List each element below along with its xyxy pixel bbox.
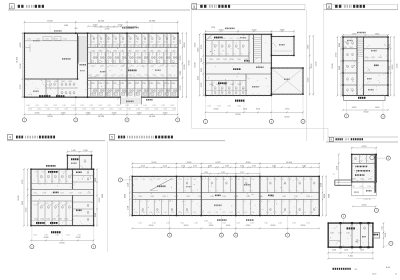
svg-text:1.365: 1.365 [106, 42, 110, 44]
svg-text:1.365: 1.365 [120, 50, 124, 52]
svg-text:4.550: 4.550 [187, 162, 192, 164]
svg-text:1.365: 1.365 [69, 193, 73, 195]
svg-text:1.365: 1.365 [150, 42, 154, 44]
svg-text:2.730: 2.730 [321, 183, 323, 187]
svg-text:1.365: 1.365 [134, 212, 138, 214]
svg-text:1.365: 1.365 [193, 179, 197, 181]
svg-text:1.365: 1.365 [35, 105, 39, 107]
svg-text:1.25 1.35: 1.25 1.35 [363, 199, 370, 201]
svg-text:6: 6 [328, 5, 330, 9]
svg-text:1.365: 1.365 [135, 42, 139, 44]
svg-text:1.365: 1.365 [119, 36, 123, 38]
svg-text:1.365: 1.365 [44, 105, 48, 107]
svg-text:1.365: 1.365 [222, 38, 226, 40]
svg-text:1.365: 1.365 [171, 83, 175, 85]
svg-text:1.365: 1.365 [266, 212, 270, 214]
svg-text:A-04: A-04 [386, 266, 390, 269]
svg-text:1.365: 1.365 [130, 66, 134, 68]
svg-text:1.365: 1.365 [170, 105, 174, 107]
svg-text:1.365: 1.365 [89, 105, 93, 107]
svg-text:1.365: 1.365 [198, 196, 202, 198]
svg-text:2.275: 2.275 [252, 166, 256, 168]
svg-text:1.365: 1.365 [109, 109, 113, 111]
svg-text:4.550: 4.550 [20, 42, 22, 48]
svg-text:1.365: 1.365 [60, 193, 64, 195]
svg-text:1.365: 1.365 [180, 222, 184, 224]
svg-text:1.365: 1.365 [258, 179, 262, 181]
svg-text:1.365: 1.365 [229, 212, 233, 214]
svg-text:5.460: 5.460 [272, 166, 276, 168]
svg-text:1.365: 1.365 [64, 219, 68, 221]
svg-text:4.100: 4.100 [141, 166, 145, 168]
svg-text:4.550: 4.550 [385, 233, 387, 237]
svg-text:2.730: 2.730 [201, 45, 203, 50]
svg-text:1.365: 1.365 [237, 59, 241, 61]
svg-text:1.365: 1.365 [143, 105, 147, 107]
svg-text:1.365: 1.365 [152, 105, 156, 107]
svg-text:1.365: 1.365 [246, 196, 250, 198]
svg-text:S-1: S-1 [355, 269, 358, 271]
svg-text:6.370: 6.370 [216, 162, 221, 164]
svg-text:1.365: 1.365 [215, 38, 219, 40]
svg-text:8.190: 8.190 [285, 117, 290, 119]
svg-text:1.365: 1.365 [100, 109, 104, 111]
svg-text:8.190: 8.190 [124, 194, 126, 198]
svg-text:2.730: 2.730 [105, 28, 110, 30]
svg-text:1.820: 1.820 [339, 66, 341, 70]
svg-text:1.365: 1.365 [26, 105, 30, 107]
svg-text:1.365: 1.365 [201, 68, 203, 72]
svg-text:1.365: 1.365 [116, 105, 120, 107]
svg-text:1.365: 1.365 [343, 47, 347, 49]
svg-text:1.365: 1.365 [138, 222, 142, 224]
svg-text:1.365: 1.365 [194, 222, 198, 224]
svg-text:1.365: 1.365 [46, 109, 50, 111]
svg-text:1.365: 1.365 [156, 212, 160, 214]
svg-text:2.275: 2.275 [240, 166, 244, 168]
svg-text:1.365: 1.365 [236, 212, 240, 214]
svg-text:4.100: 4.100 [163, 166, 167, 168]
svg-text:1.365: 1.365 [62, 172, 66, 174]
svg-text:1.365: 1.365 [134, 36, 138, 38]
svg-text:10.920: 10.920 [286, 162, 292, 164]
svg-text:1.365: 1.365 [44, 234, 48, 236]
svg-text:1.365: 1.365 [48, 204, 52, 206]
svg-text:1.365: 1.365 [53, 105, 57, 107]
svg-text:4.550: 4.550 [163, 112, 168, 114]
svg-text:1.365: 1.365 [120, 66, 124, 68]
svg-text:1.365: 1.365 [142, 179, 146, 181]
svg-text:9.100: 9.100 [328, 194, 330, 198]
svg-text:1.365: 1.365 [58, 219, 62, 221]
svg-text:1.365: 1.365 [280, 212, 284, 214]
svg-text:1.365: 1.365 [135, 83, 139, 85]
svg-text:1.365: 1.365 [90, 36, 94, 38]
svg-text:1.365: 1.365 [120, 83, 124, 85]
svg-text:4.550: 4.550 [93, 25, 98, 27]
svg-text:1.365: 1.365 [91, 50, 95, 52]
svg-text:1.365: 1.365 [135, 50, 139, 52]
svg-text:1.400: 1.400 [226, 225, 231, 227]
svg-text:1.820: 1.820 [71, 150, 75, 152]
svg-text:4.550: 4.550 [362, 146, 367, 148]
svg-text:1.365: 1.365 [222, 212, 226, 214]
svg-text:1.365: 1.365 [338, 233, 342, 235]
svg-text:1.365: 1.365 [54, 81, 58, 83]
svg-text:1.365: 1.365 [150, 196, 154, 198]
svg-text:1.365: 1.365 [128, 50, 132, 52]
svg-text:1.365: 1.365 [78, 193, 82, 195]
svg-text:2.730: 2.730 [128, 206, 130, 210]
svg-text:1.820: 1.820 [221, 172, 225, 174]
svg-text:1.365: 1.365 [200, 179, 204, 181]
svg-text:10.920: 10.920 [98, 116, 105, 118]
svg-text:2.1: 2.1 [333, 173, 335, 175]
svg-text:4: 4 [11, 5, 13, 9]
svg-text:2.730: 2.730 [352, 33, 357, 35]
svg-text:9.100: 9.100 [396, 64, 398, 69]
svg-text:1.365: 1.365 [73, 109, 77, 111]
svg-text:4.550: 4.550 [246, 225, 251, 227]
svg-text:1.365: 1.365 [33, 234, 37, 236]
svg-text:1.365: 1.365 [162, 196, 166, 198]
svg-text:1.365: 1.365 [113, 42, 117, 44]
svg-text:1.365: 1.365 [309, 179, 313, 181]
svg-text:1.820: 1.820 [83, 150, 87, 152]
svg-text:1.365: 1.365 [28, 109, 32, 111]
svg-text:1.365: 1.365 [62, 204, 66, 206]
svg-text:1.365: 1.365 [170, 36, 174, 38]
svg-text:2.275: 2.275 [181, 166, 185, 168]
svg-text:1.365: 1.365 [134, 179, 138, 181]
svg-text:1.365: 1.365 [215, 179, 219, 181]
svg-text:1.365: 1.365 [62, 105, 66, 107]
svg-text:1.365: 1.365 [172, 109, 176, 111]
svg-text:1.365: 1.365 [144, 75, 148, 77]
svg-text:8.190: 8.190 [59, 242, 65, 244]
svg-text:8.190: 8.190 [47, 116, 53, 118]
svg-text:1.365: 1.365 [236, 38, 240, 40]
svg-text:1.365: 1.365 [47, 81, 51, 83]
svg-text:1.365: 1.365 [172, 42, 176, 44]
svg-text:2.730: 2.730 [26, 208, 28, 213]
svg-text:8.190: 8.190 [301, 225, 306, 227]
svg-text:1.365: 1.365 [145, 109, 149, 111]
svg-text:1.365: 1.365 [34, 219, 38, 221]
svg-text:1.365: 1.365 [140, 66, 144, 68]
svg-text:1.365: 1.365 [160, 66, 164, 68]
svg-text:1.365: 1.365 [215, 212, 219, 214]
svg-text:1.365: 1.365 [264, 222, 268, 224]
svg-text:1.365: 1.365 [142, 212, 146, 214]
svg-text:1.365: 1.365 [306, 222, 310, 224]
svg-text:9.100: 9.100 [315, 62, 317, 67]
svg-text:1.365: 1.365 [99, 42, 103, 44]
svg-text:1.365: 1.365 [125, 105, 129, 107]
svg-text:1.365: 1.365 [229, 179, 233, 181]
svg-text:1.365: 1.365 [346, 233, 350, 235]
svg-text:1.365: 1.365 [198, 76, 200, 80]
svg-text:2.730: 2.730 [180, 86, 182, 91]
svg-text:1.365: 1.365 [178, 179, 182, 181]
svg-text:1.365: 1.365 [106, 50, 110, 52]
svg-text:1.365: 1.365 [171, 179, 175, 181]
svg-text:1.820: 1.820 [95, 178, 97, 182]
svg-text:8.190: 8.190 [194, 63, 196, 68]
svg-text:1.820: 1.820 [308, 45, 310, 50]
svg-text:4.550: 4.550 [194, 43, 196, 48]
svg-text:10.920: 10.920 [149, 116, 156, 118]
svg-text:2.275: 2.275 [193, 166, 197, 168]
svg-text:1.365: 1.365 [367, 186, 371, 188]
svg-text:1.365: 1.365 [166, 222, 170, 224]
svg-text:1.365: 1.365 [120, 75, 124, 77]
svg-text:1.365: 1.365 [113, 83, 117, 85]
svg-text:1.365: 1.365 [118, 109, 122, 111]
svg-text:2.730: 2.730 [335, 53, 337, 58]
svg-text:1.400: 1.400 [204, 221, 208, 223]
svg-text:14: 14 [395, 273, 397, 275]
svg-text:1.365: 1.365 [71, 105, 75, 107]
svg-text:1.365: 1.365 [273, 179, 277, 181]
svg-text:1.365: 1.365 [136, 75, 140, 77]
svg-text:1.365: 1.365 [302, 179, 306, 181]
svg-text:8.190: 8.190 [47, 21, 53, 23]
svg-text:1.365: 1.365 [142, 83, 146, 85]
svg-text:1.365: 1.365 [128, 83, 132, 85]
svg-text:1.365: 1.365 [368, 179, 372, 181]
svg-text:1.365: 1.365 [64, 109, 68, 111]
svg-text:1.365: 1.365 [142, 50, 146, 52]
svg-text:1.365: 1.365 [154, 109, 158, 111]
svg-text:4.550: 4.550 [209, 225, 214, 227]
svg-text:1.365: 1.365 [142, 42, 146, 44]
svg-text:4.550: 4.550 [219, 30, 224, 32]
svg-text:1.365: 1.365 [98, 50, 102, 52]
svg-text:3.640: 3.640 [280, 30, 285, 32]
svg-text:1.365: 1.365 [160, 75, 164, 77]
svg-text:1.365: 1.365 [157, 83, 161, 85]
svg-text:1.365: 1.365 [61, 81, 65, 83]
svg-text:1.365: 1.365 [36, 39, 40, 41]
svg-text:1.365: 1.365 [193, 212, 197, 214]
svg-text:8.190: 8.190 [152, 162, 157, 164]
svg-text:1.365: 1.365 [149, 179, 153, 181]
svg-text:1.400: 1.400 [375, 107, 380, 109]
svg-text:1.365: 1.365 [113, 50, 117, 52]
svg-text:10.920: 10.920 [149, 21, 156, 23]
svg-text:8.190: 8.190 [271, 225, 276, 227]
svg-text:4.550: 4.550 [35, 112, 40, 114]
svg-text:1.365: 1.365 [330, 233, 334, 235]
svg-text:1.365: 1.365 [266, 179, 270, 181]
svg-text:13.650: 13.650 [17, 57, 19, 63]
svg-text:1.820: 1.820 [198, 48, 200, 53]
svg-text:1.365: 1.365 [282, 196, 286, 198]
svg-text:1.365: 1.365 [351, 186, 355, 188]
svg-text:1.365: 1.365 [164, 50, 168, 52]
svg-text:1.365: 1.365 [45, 39, 49, 41]
svg-text:1.365: 1.365 [63, 39, 67, 41]
svg-text:5: 5 [193, 5, 195, 9]
svg-text:1.365: 1.365 [55, 204, 59, 206]
svg-text:1.365: 1.365 [157, 42, 161, 44]
svg-text:1.365: 1.365 [234, 196, 238, 198]
svg-text:4.100: 4.100 [149, 225, 154, 227]
svg-text:1.365: 1.365 [163, 109, 167, 111]
svg-text:1/100: 1/100 [372, 273, 377, 275]
svg-text:1.365: 1.365 [27, 39, 31, 41]
svg-text:2.100: 2.100 [76, 237, 81, 239]
svg-text:1.365: 1.365 [55, 109, 59, 111]
svg-text:1.365: 1.365 [41, 204, 45, 206]
svg-text:1.365: 1.365 [128, 42, 132, 44]
svg-text:1.365: 1.365 [237, 106, 241, 108]
svg-text:1.365: 1.365 [141, 36, 145, 38]
svg-text:8.190: 8.190 [184, 65, 186, 70]
svg-text:1.365: 1.365 [222, 222, 226, 224]
svg-text:1.365: 1.365 [208, 222, 212, 224]
svg-text:1.365: 1.365 [216, 84, 220, 86]
svg-text:2.130: 2.130 [332, 250, 336, 252]
svg-text:1.365: 1.365 [244, 179, 248, 181]
svg-text:1.820: 1.820 [95, 213, 97, 217]
svg-text:1.365: 1.365 [207, 179, 211, 181]
svg-text:1.210: 1.210 [344, 250, 348, 252]
svg-text:2.730: 2.730 [201, 83, 203, 88]
svg-text:9.100: 9.100 [102, 194, 104, 198]
svg-text:1.365: 1.365 [364, 57, 368, 59]
svg-text:1.365: 1.365 [292, 222, 296, 224]
svg-text:1.365: 1.365 [46, 219, 50, 221]
svg-text:1.365: 1.365 [150, 50, 154, 52]
svg-text:1.365: 1.365 [237, 84, 241, 86]
svg-text:1.365: 1.365 [33, 193, 37, 195]
svg-text:1.365: 1.365 [40, 219, 44, 221]
svg-text:1.365: 1.365 [105, 36, 109, 38]
svg-text:1.365: 1.365 [288, 212, 292, 214]
svg-text:1.365: 1.365 [156, 36, 160, 38]
svg-text:1.365: 1.365 [134, 105, 138, 107]
svg-text:4.550: 4.550 [362, 205, 367, 207]
svg-text:1.820: 1.820 [204, 172, 208, 174]
svg-text:910: 910 [75, 28, 78, 30]
svg-text:1.365: 1.365 [152, 75, 156, 77]
svg-text:1.365: 1.365 [171, 212, 175, 214]
svg-text:2.210: 2.210 [360, 250, 364, 252]
svg-text:1.365: 1.365 [128, 75, 132, 77]
svg-text:1.365: 1.365 [223, 84, 227, 86]
svg-text:1.365: 1.365 [164, 42, 168, 44]
svg-text:1.400: 1.400 [243, 109, 247, 111]
svg-text:1.365: 1.365 [149, 36, 153, 38]
svg-text:1.365: 1.365 [163, 36, 167, 38]
svg-text:1.365: 1.365 [185, 179, 189, 181]
svg-text:5.460: 5.460 [302, 166, 306, 168]
svg-text:3.185: 3.185 [225, 166, 229, 168]
svg-text:4.550: 4.550 [184, 43, 186, 48]
svg-text:2.750: 2.750 [285, 109, 290, 111]
svg-text:1.365: 1.365 [280, 179, 284, 181]
svg-text:4.550: 4.550 [61, 112, 66, 114]
svg-text:1.365: 1.365 [82, 109, 86, 111]
svg-text:1.365: 1.365 [201, 58, 203, 62]
svg-text:1.365: 1.365 [227, 106, 231, 108]
svg-text:4.550: 4.550 [337, 166, 339, 170]
svg-text:2.730: 2.730 [20, 85, 22, 90]
svg-text:1.365: 1.365 [216, 59, 220, 61]
svg-text:1.365: 1.365 [209, 84, 213, 86]
svg-text:5: 5 [111, 136, 113, 140]
svg-text:1.365: 1.365 [106, 83, 110, 85]
svg-text:3.640: 3.640 [86, 112, 91, 114]
svg-text:1.365: 1.365 [295, 212, 299, 214]
svg-text:1.365: 1.365 [37, 109, 41, 111]
svg-text:2.730: 2.730 [389, 66, 391, 70]
svg-text:1.365: 1.365 [164, 83, 168, 85]
svg-text:1.365: 1.365 [185, 212, 189, 214]
svg-text:1.365: 1.365 [68, 81, 72, 83]
svg-text:1.365: 1.365 [64, 25, 68, 27]
svg-text:1.365: 1.365 [210, 196, 214, 198]
svg-text:1.365: 1.365 [77, 234, 81, 236]
svg-text:1.365: 1.365 [209, 59, 213, 61]
svg-text:2.275: 2.275 [240, 172, 244, 174]
svg-text:1.365: 1.365 [371, 57, 375, 59]
svg-text:1.365: 1.365 [306, 196, 310, 198]
svg-text:1.365: 1.365 [97, 36, 101, 38]
svg-text:2.730: 2.730 [180, 56, 182, 61]
svg-text:1.365: 1.365 [178, 212, 182, 214]
svg-text:1.365: 1.365 [163, 179, 167, 181]
svg-text:4.550: 4.550 [214, 109, 219, 111]
svg-text:9.100: 9.100 [348, 256, 353, 258]
svg-text:1.365: 1.365 [288, 179, 292, 181]
svg-text:1.365: 1.365 [91, 109, 95, 111]
svg-text:1.365: 1.365 [251, 179, 255, 181]
svg-text:1.365: 1.365 [236, 179, 240, 181]
svg-text:1.365: 1.365 [278, 222, 282, 224]
svg-text:1.365: 1.365 [359, 186, 363, 188]
svg-text:1.365: 1.365 [98, 105, 102, 107]
svg-text:2.730: 2.730 [211, 27, 215, 29]
svg-text:1.365: 1.365 [207, 106, 211, 108]
svg-text:1.365: 1.365 [55, 234, 59, 236]
svg-text:8.190: 8.190 [18, 196, 20, 201]
svg-text:1.820: 1.820 [375, 33, 380, 35]
svg-text:1.365: 1.365 [180, 71, 182, 76]
svg-text:8.190: 8.190 [311, 64, 313, 69]
svg-text:1.365: 1.365 [52, 219, 56, 221]
svg-text:1.365: 1.365 [91, 42, 95, 44]
svg-text:1.365: 1.365 [349, 47, 353, 49]
svg-text:1.365: 1.365 [34, 204, 38, 206]
svg-text:1.365: 1.365 [66, 234, 70, 236]
svg-text:1.365: 1.365 [127, 109, 131, 111]
svg-text:1.365: 1.365 [294, 196, 298, 198]
svg-text:1.365: 1.365 [112, 36, 116, 38]
svg-text:8.190: 8.190 [324, 194, 326, 198]
svg-text:1.365: 1.365 [302, 212, 306, 214]
svg-text:8.190: 8.190 [20, 63, 22, 69]
svg-text:1.365: 1.365 [157, 50, 161, 52]
svg-text:8.190: 8.190 [332, 64, 334, 69]
svg-text:1.365: 1.365 [163, 212, 167, 214]
svg-text:1.365: 1.365 [41, 172, 45, 174]
svg-text:2.730: 2.730 [22, 180, 24, 185]
svg-text:1.365: 1.365 [98, 83, 102, 85]
svg-text:10.920: 10.920 [98, 21, 105, 23]
